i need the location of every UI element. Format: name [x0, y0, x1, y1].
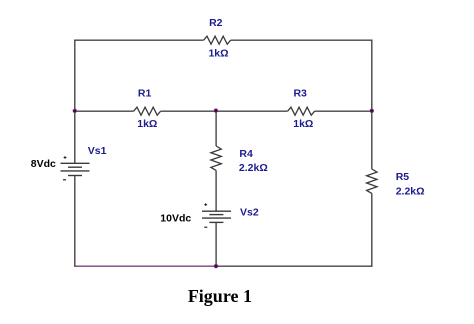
wire between R4 and Vs2: [215, 170, 217, 211]
node junction left middle: [73, 109, 77, 113]
wire middle vertical lower segment: [215, 222, 217, 267]
svg-text:R1: R1: [138, 88, 152, 100]
svg-text:Vs1: Vs1: [88, 145, 107, 157]
svg-text:Vs2: Vs2: [240, 206, 259, 218]
resistor R5: [367, 169, 377, 193]
wire top-right horizontal segment: [231, 39, 373, 41]
svg-text:8Vdc: 8Vdc: [31, 158, 56, 170]
resistor R1: [134, 107, 161, 115]
wire bottom-right: [216, 265, 372, 267]
resistor R3: [288, 107, 315, 115]
svg-text:2.2kΩ: 2.2kΩ: [396, 185, 425, 197]
svg-text:2.2kΩ: 2.2kΩ: [239, 162, 268, 174]
svg-text:10Vdc: 10Vdc: [160, 213, 191, 225]
svg-text:1kΩ: 1kΩ: [293, 118, 313, 130]
svg-text:1kΩ: 1kΩ: [137, 118, 157, 130]
node junction center middle: [214, 108, 218, 112]
svg-text:1kΩ: 1kΩ: [208, 48, 228, 60]
wire middle-left horizontal segment: [74, 110, 134, 112]
voltage source Vs2 battery plates: [202, 211, 231, 222]
svg-text:R5: R5: [396, 171, 410, 183]
resistor R2: [204, 36, 231, 44]
wire top-left horizontal segment: [74, 39, 204, 41]
voltage source Vs1 battery plates: [61, 163, 90, 175]
wire middle-right horizontal segment: [315, 110, 373, 112]
wire left vertical upper segment: [74, 40, 76, 164]
wire bottom-left (magenta): [74, 265, 216, 267]
plus sign of Vs1: [64, 156, 67, 159]
wire right vertical lower segment: [371, 193, 373, 267]
minus sign of Vs1: [63, 179, 66, 181]
svg-text:R4: R4: [239, 148, 253, 160]
node junction bottom center: [214, 264, 218, 268]
resistor R4: [211, 146, 221, 170]
svg-text:R3: R3: [293, 88, 307, 100]
wire middle vertical upper segment: [215, 111, 217, 146]
plus sign of Vs2: [204, 203, 207, 206]
wire right vertical upper segment: [371, 40, 373, 170]
node junction right middle: [370, 109, 374, 113]
svg-text:R2: R2: [209, 17, 223, 29]
wire left vertical lower segment: [74, 176, 76, 267]
svg-text:Figure 1: Figure 1: [188, 286, 252, 306]
wire middle-center horizontal segment: [161, 110, 288, 112]
minus sign of Vs2: [204, 226, 207, 228]
